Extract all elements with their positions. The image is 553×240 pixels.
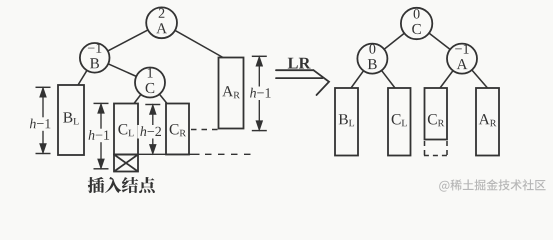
subtree box CL (left CL) bbox=[114, 104, 138, 155]
label BL bbox=[339, 114, 354, 126]
node B right: key letter "B" bbox=[368, 59, 377, 69]
label h−1 bbox=[89, 130, 110, 140]
edge C-CL (left tree) bbox=[134, 83, 150, 104]
edge B-CL (right tree) bbox=[372, 59, 395, 88]
subtree box CR (left CR) bbox=[166, 104, 189, 155]
node B left: circle bbox=[80, 43, 110, 73]
node B left: key letter "B" bbox=[90, 58, 99, 68]
measure arrow right of AR (h−1) bbox=[252, 56, 267, 130]
node B left: balance factor "−1" bbox=[88, 43, 102, 52]
edge A-B (left tree) bbox=[95, 23, 162, 58]
edge C-A (right tree) bbox=[417, 24, 462, 59]
dashed extension of CR bbox=[424, 141, 448, 156]
edge A-CR (right tree) bbox=[440, 59, 462, 88]
label h−1 bbox=[250, 88, 271, 98]
watermark (Chinese community credit) bbox=[439, 179, 545, 192]
node A right: key letter "A" bbox=[457, 59, 468, 69]
dashed line CR to AR bottom bbox=[191, 129, 219, 131]
caption "insert node" (Chinese) bbox=[88, 177, 155, 193]
subtree box BL (left BL) bbox=[58, 85, 84, 155]
node B right: balance factor "0" bbox=[369, 44, 375, 54]
edge C-CR (left tree) bbox=[150, 83, 167, 104]
node C left: key letter "C" bbox=[146, 83, 155, 93]
label AR bbox=[479, 114, 497, 126]
node A left: balance factor "2" bbox=[159, 8, 165, 17]
inserted node crossed box bbox=[114, 155, 138, 172]
edge B-BL (right tree) bbox=[351, 59, 372, 88]
big double arrow bbox=[276, 70, 329, 95]
label CR bbox=[428, 114, 444, 126]
subtree box AR (left AR) bbox=[219, 58, 244, 129]
measure arrow left of BL (h−1) bbox=[36, 87, 51, 153]
label CL bbox=[118, 124, 133, 136]
subtree box AR (right AR) bbox=[476, 88, 499, 156]
node C left: balance factor "1" bbox=[148, 68, 153, 77]
label h−1 bbox=[30, 119, 51, 129]
label CR bbox=[170, 124, 186, 136]
node A right: circle bbox=[447, 44, 477, 74]
edge A-AR (right tree) bbox=[462, 59, 488, 88]
label BL bbox=[63, 112, 78, 124]
node A right: balance factor "−1" bbox=[455, 44, 469, 53]
label h−2 bbox=[140, 126, 161, 136]
node A left: key letter "A" bbox=[156, 23, 167, 33]
node B right: circle bbox=[357, 44, 387, 74]
node C right: balance factor "0" bbox=[414, 9, 420, 19]
subtree box CR (right, shortened) bbox=[425, 88, 448, 140]
node A left: circle bbox=[146, 7, 177, 38]
label AR bbox=[222, 86, 240, 98]
edge B-C (left tree) bbox=[95, 58, 150, 83]
node C right: key letter "C" bbox=[412, 24, 421, 34]
label CL bbox=[392, 114, 407, 126]
measure arrow left of CL (h−1) bbox=[94, 103, 109, 168]
edge A-AR (left tree) bbox=[162, 23, 223, 58]
measure arrow between CL CR (h−2) bbox=[145, 105, 160, 154]
LR label bbox=[288, 58, 311, 69]
edge B-BL (left tree) bbox=[78, 58, 95, 85]
node C right: circle bbox=[401, 8, 432, 39]
bottom level line (dashed) bbox=[205, 153, 253, 155]
edge C-B (right tree) bbox=[372, 24, 416, 59]
subtree box BL (right BL) bbox=[335, 88, 358, 156]
bottom level line (solid) bbox=[114, 153, 200, 155]
node C left: circle bbox=[135, 68, 165, 98]
subtree box CL (right CL) bbox=[388, 88, 411, 156]
